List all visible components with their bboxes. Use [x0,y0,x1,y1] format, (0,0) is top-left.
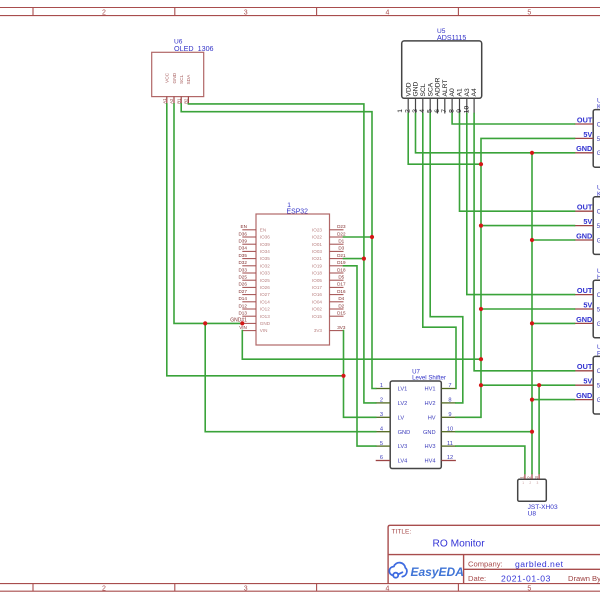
U7 left pin 1 (LV1) [376,388,391,390]
wire net GND: OLED A2 down, right to ESP GND pin [174,104,242,324]
U7 right pin 9 (HV) [441,416,456,418]
frame bottom outer line [0,590,600,592]
ESP32 right pin D23 [330,229,344,231]
U7 right pin 8 (HV2) [441,402,456,404]
ESP32 left pin D32 [242,265,256,267]
svg-text:IO14: IO14 [260,299,270,304]
U6 pin A1 (VCC) [166,97,168,104]
svg-text:3V3: 3V3 [337,325,346,330]
connector K2 (right edge, partially visible) [575,185,600,255]
U7 right pin 12 (HV4) [441,460,456,462]
svg-text:5: 5 [427,109,434,113]
node 3V3/OLED-VCC junction [341,374,345,378]
svg-text:SDA: SDA [186,74,192,85]
svg-text:D12: D12 [238,303,247,308]
svg-text:A2: A2 [169,98,174,104]
node GND at K3 [530,321,534,325]
K4 pin GND stub [575,399,594,401]
node SCL-LV at ESP D22 [370,235,374,239]
U7 left pin 3 (LV) [376,416,391,418]
wire net 5V: K1 5V pin left then column down to U7 pin 9 [456,138,575,417]
svg-text:EasyEDA: EasyEDA [411,565,464,579]
svg-text:IO35: IO35 [260,256,270,261]
svg-text:3: 3 [244,585,248,592]
svg-text:D3: D3 [338,246,344,251]
U8 pin name marks [522,481,538,485]
svg-text:D25: D25 [238,275,247,280]
U7 left pin 6 (LV4) [376,460,391,462]
wire net 5V: branch to K2 5V [481,225,575,227]
svg-text:D34: D34 [238,246,247,251]
svg-text:2: 2 [529,481,531,485]
svg-text:A4: A4 [471,88,478,96]
K4 pin 5V stub [575,384,594,386]
node GND at K2 [530,238,534,242]
svg-text:IO03: IO03 [312,249,322,254]
svg-text:IO22: IO22 [312,235,322,240]
svg-text:HV3: HV3 [425,444,436,450]
node GND at K4 [530,398,534,402]
svg-text:LV3: LV3 [398,444,408,450]
svg-text:IO01: IO01 [312,242,322,247]
svg-text:IO25: IO25 [260,278,270,283]
svg-text:9: 9 [456,109,463,113]
svg-text:D14: D14 [238,296,247,301]
node 5V at K3 [479,307,483,311]
svg-text:HV2: HV2 [425,401,436,407]
svg-text:GND: GND [423,430,436,436]
ESP32 right pin D2 [330,308,344,310]
title block divider under title row [388,554,600,556]
svg-text:11: 11 [447,441,453,447]
svg-text:VIN: VIN [239,325,247,330]
U5 body [402,41,482,98]
svg-text:D27: D27 [238,289,247,294]
svg-text:5V: 5V [583,217,592,226]
K2 pin OUT stub [575,210,594,212]
svg-text:IO27: IO27 [260,292,270,297]
U6 pin A2 (GND) [173,97,175,104]
svg-text:SCA: SCA [427,82,434,96]
U7 body [390,381,441,469]
frame bottom tick marks [32,584,34,592]
U8 pin 3 stub [538,473,540,479]
svg-text:2: 2 [102,585,106,592]
wire net GND: branch down to U7 pin 4 [205,323,376,431]
svg-text:6: 6 [380,455,383,461]
svg-text:D4: D4 [338,296,344,301]
svg-text:D33: D33 [238,267,247,272]
svg-text:IO02: IO02 [312,307,322,312]
svg-text:8: 8 [449,109,456,113]
svg-text:A1: A1 [457,88,464,96]
svg-text:GND: GND [260,321,271,326]
wire net 5V: branch to K4 5V [481,384,575,386]
U6 pin B2 (SDA) [187,97,189,104]
wire net GND: branch to K2 GND [532,239,575,241]
svg-text:Date:: Date: [468,574,486,583]
ESP32 right pin 3V3 [330,330,344,332]
title block divider between company and date [464,568,600,570]
K3 pin OUT stub [575,294,594,296]
svg-text:VCC: VCC [165,72,171,83]
frame top outer line [0,7,600,9]
svg-text:4: 4 [419,109,426,113]
svg-text:ADDR: ADDR [435,77,442,96]
connector U8 JST-XH03 [518,473,558,517]
ESP32 right pin D21 [330,258,344,260]
svg-text:B1: B1 [176,98,181,104]
title block vertical divider after logo [463,555,465,584]
svg-text:5V: 5V [583,130,592,139]
svg-text:IO05: IO05 [312,278,322,283]
svg-text:Company:: Company: [468,560,503,569]
svg-text:IO23: IO23 [312,227,322,232]
svg-text:IO18: IO18 [312,271,322,276]
svg-text:3: 3 [537,481,539,485]
svg-text:IO16: IO16 [312,292,322,297]
svg-text:3: 3 [244,9,248,16]
U8 pin 2 stub [531,473,533,479]
svg-text:GND: GND [398,430,411,436]
wire ESP32 D21 to SDA-LV column [344,258,364,260]
K1 body [593,110,600,168]
svg-text:GND: GND [576,315,592,324]
svg-text:10: 10 [447,426,453,432]
ESP32 right pin D18 [330,272,344,274]
node GND at ESP GND pin [240,321,244,325]
svg-text:Drawn By:: Drawn By: [568,574,600,583]
node 5V JST drop [537,383,541,387]
svg-text:LV4: LV4 [398,459,408,465]
svg-text:ALRT: ALRT [442,80,449,97]
svg-text:1: 1 [397,109,404,113]
node 5V at K2 [479,224,483,228]
wire ESP32 VIN down and right to 5V column [242,331,481,360]
node SDA-LV at ESP D21 [362,257,366,261]
U7 right pin 10 (GND) [441,431,456,433]
connector K1 (right edge, partially visible) [575,97,600,167]
EasyEDA logo cloud icon [389,563,407,578]
node GND at U7 pin 10 [530,430,534,434]
svg-text:D21: D21 [337,253,346,258]
svg-text:D5: D5 [338,275,344,280]
U7 left pin 5 (LV3) [376,445,391,447]
svg-text:LV: LV [398,415,405,421]
svg-text:6: 6 [434,109,441,113]
wire ADS1115 A0 to connector K1 OUT [452,114,574,125]
svg-text:5V: 5V [583,377,592,386]
svg-text:D2: D2 [338,303,344,308]
svg-text:IO36: IO36 [260,235,270,240]
svg-text:HV4: HV4 [425,459,436,465]
wire ADS1115 VDD down and right to 5V column [408,114,481,165]
svg-text:HV: HV [428,415,436,421]
ESP32 right pin D1 [330,243,344,245]
svg-text:10: 10 [464,105,471,113]
svg-text:1: 1 [522,481,524,485]
connector K4 (right edge, partially visible) [575,344,600,414]
svg-text:5V: 5V [583,300,592,309]
TITLE BLOCK [388,525,600,583]
node 5V at ADS VDD [479,162,483,166]
K2 body [593,197,600,255]
ESP32 right pin D15 [330,315,344,317]
svg-text:GND: GND [413,81,420,96]
node 5V at K4 [479,383,483,387]
wire net GND: main column K1 GND down to U8 pin 2 [531,153,533,474]
svg-text:A1: A1 [162,98,167,104]
U5 pins 1-10 stubs [408,98,474,113]
svg-text:D32: D32 [238,260,247,265]
U7 left pin 2 (LV2) [376,402,391,404]
wire ADS1115 A4 to connector K4 OUT [474,114,574,371]
wire ADS1115 A1 to connector K2 OUT [460,114,575,212]
svg-text:TITLE:: TITLE: [392,529,412,536]
ESP32 left pin D34 [242,250,256,252]
title block outer border [388,525,600,583]
svg-text:4: 4 [386,585,390,592]
svg-text:IO33: IO33 [260,271,270,276]
wire ADS1115 SCL down, right, down to U7 pin 7 [423,114,456,389]
ESP32 left pin D39 [242,243,256,245]
K2 pin 5V stub [575,225,594,227]
svg-text:IO04: IO04 [312,299,322,304]
svg-text:2: 2 [405,109,412,113]
K4 body [593,356,600,414]
IC ESP32 (designator 1) [230,202,346,345]
ESP32 left pin D33 [242,272,256,274]
svg-text:U8: U8 [528,511,537,518]
svg-text:IO26: IO26 [260,285,270,290]
node 5V at ESP VIN [479,357,483,361]
node GND at K1 [530,151,534,155]
svg-text:IO32: IO32 [260,263,270,268]
wire ESP32 D19 to U7 pin 5 [344,266,376,446]
svg-text:OUT: OUT [577,286,593,295]
svg-text:LV1: LV1 [398,387,408,393]
svg-text:OUT: OUT [577,362,593,371]
svg-text:VDD: VDD [405,82,412,96]
ESP32 left pin EN [242,229,256,231]
svg-text:D26: D26 [238,282,247,287]
wire net SCL-LV: OLED B1 down, across, down to U7 pin 1 [181,104,376,389]
wire ESP32 3V3 down to U7 pin 3 [344,331,376,418]
wire net 3V3: OLED A1 down and right to ESP 3V3 column [167,104,344,376]
wire ESP32 D22 to SCL-LV column [344,236,373,238]
svg-text:D18: D18 [337,267,346,272]
svg-text:OUT: OUT [577,203,593,212]
svg-text:D36: D36 [238,231,247,236]
svg-text:HV1: HV1 [425,387,436,393]
svg-text:D17: D17 [337,282,346,287]
svg-text:OUT: OUT [577,115,593,124]
svg-text:1: 1 [380,383,383,389]
svg-text:5: 5 [527,9,531,16]
svg-text:12: 12 [447,455,453,461]
frame bottom inner line [0,583,600,585]
svg-text:EN: EN [260,227,266,232]
svg-text:IO12: IO12 [260,307,270,312]
svg-text:3: 3 [380,412,383,418]
frame top tick marks [32,8,34,16]
svg-text:RO Monitor: RO Monitor [433,538,486,549]
wire U7 pin 11 to U8 pin 1 [456,446,525,473]
svg-text:OLED_1306: OLED_1306 [174,44,214,53]
U7 left pin 4 (GND) [376,431,391,433]
frame zone numbers top [102,9,531,16]
IC U6 OLED_1306 [152,39,214,104]
wire net 5V: branch to K3 5V [481,308,575,310]
K2 pin GND stub [575,239,594,241]
svg-text:D15: D15 [337,311,346,316]
svg-text:IO34: IO34 [260,249,270,254]
wire ADS1115 GND to connector K1 GND [416,114,575,153]
svg-text:D1: D1 [338,239,344,244]
svg-text:D19: D19 [337,260,346,265]
svg-text:IO39: IO39 [260,242,270,247]
ESP32 right pin D4 [330,301,344,303]
wire net GND: U7 pin 10 to GND column [456,431,532,433]
K4 pin OUT stub [575,370,594,372]
svg-text:GND: GND [576,231,592,240]
svg-text:A3: A3 [464,88,471,96]
svg-text:9: 9 [448,412,451,418]
ESP32 right pin D17 [330,286,344,288]
svg-text:2: 2 [380,398,383,404]
ESP32 right pin D5 [330,279,344,281]
K1 pin GND stub [575,152,594,154]
ESP32 left pin D36 [242,236,256,238]
ESP32 right pin D16 [330,294,344,296]
IC U5 ADS1115 [397,28,482,113]
svg-text:GND: GND [576,391,592,400]
ESP32 left pin GND#1 [242,322,256,324]
ESP32 body [256,214,330,345]
ESP32 left pin D25 [242,279,256,281]
connector K3 (right edge, partially visible) [575,268,600,338]
ESP32 left pin D12 [242,308,256,310]
svg-text:D23: D23 [337,224,346,229]
wire net SDA-LV: OLED B2 across, down to U7 pin 2 [188,104,375,403]
svg-text:D16: D16 [337,289,346,294]
svg-text:A0: A0 [449,88,456,96]
K1 pin OUT stub [575,123,594,125]
svg-text:IO15: IO15 [312,314,322,319]
K3 body [593,280,600,338]
wire ADS1115 A3 to connector K3 OUT [467,114,575,295]
K3 pin GND stub [575,322,594,324]
svg-text:8: 8 [448,398,451,404]
svg-text:3: 3 [412,109,419,113]
svg-text:B2: B2 [184,98,189,104]
frame zone numbers bottom [102,585,531,592]
svg-text:garbled.net: garbled.net [515,559,564,569]
svg-text:EN: EN [241,224,247,229]
K1 pin 5V stub [575,137,594,139]
svg-text:SCL: SCL [179,74,185,84]
svg-text:7: 7 [441,109,448,113]
svg-text:2: 2 [102,9,106,16]
ESP32 left pin VIN [242,330,256,332]
wire ADS1115 SCA down, right, down to U7 pin 8 [430,114,463,403]
svg-text:3V3: 3V3 [314,328,323,333]
svg-text:GND: GND [172,72,178,83]
ESP32 right pin D22 [330,236,344,238]
wire net GND: branch to K3 GND [532,322,575,324]
svg-text:4: 4 [380,426,383,432]
svg-text:IO19: IO19 [312,263,322,268]
ESP32 left pin D14 [242,301,256,303]
IC U7 Level Shifter [376,369,456,469]
svg-text:4: 4 [386,9,390,16]
ESP32 left pin D27 [242,294,256,296]
U6 body [152,52,204,96]
wire net 5V: drop to U8 pin 3 [538,385,540,473]
svg-text:D39: D39 [238,239,247,244]
svg-text:2021-01-03: 2021-01-03 [501,573,551,583]
ESP32 left pin D13 [242,315,256,317]
svg-text:D35: D35 [238,253,247,258]
U6 pin B1 (SCL) [180,97,182,104]
U7 right pin 7 (HV1) [441,388,456,390]
svg-text:SCL: SCL [420,83,427,96]
svg-text:7: 7 [448,383,451,389]
ESP32 right pin D3 [330,250,344,252]
svg-text:GND: GND [576,144,592,153]
svg-text:D13: D13 [238,311,247,316]
frame top inner line [0,15,600,17]
wire net GND: branch to K4 GND [532,399,575,401]
ESP32 right pin D19 [330,265,344,267]
ESP32 left pin D26 [242,286,256,288]
U7 right pin 11 (HV3) [441,445,456,447]
svg-text:D22: D22 [337,231,346,236]
svg-text:LV2: LV2 [398,401,408,407]
svg-text:IO13: IO13 [260,314,270,319]
svg-text:VIN: VIN [260,328,268,333]
K3 pin 5V stub [575,308,594,310]
U8 pin 1 stub [524,473,526,479]
U8 body [518,479,547,501]
svg-text:IO17: IO17 [312,285,322,290]
svg-text:5: 5 [527,585,531,592]
ESP32 left pin D35 [242,258,256,260]
node GND branch junction [203,321,207,325]
svg-text:5: 5 [380,441,383,447]
svg-text:IO21: IO21 [312,256,322,261]
